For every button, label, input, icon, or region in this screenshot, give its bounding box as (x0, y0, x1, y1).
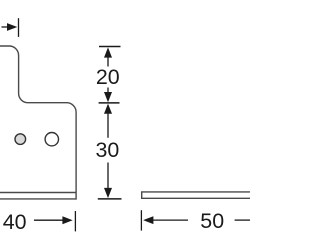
top-view bar (142, 192, 250, 198)
thickness pointer arrow (2, 26, 9, 28)
hole left (filled gray) (15, 134, 26, 145)
dim 30 up arrow (104, 104, 112, 114)
svg-text:40: 40 (3, 210, 27, 234)
svg-text:20: 20 (96, 65, 120, 89)
dim 30 bottom tick (98, 198, 122, 200)
svg-text:30: 30 (96, 138, 120, 162)
hole right (open) (45, 133, 58, 146)
flange fold line (0, 192, 76, 194)
dim 50 tick (140, 210, 142, 230)
dim 40 tick (74, 211, 76, 231)
bracket side-view outline (stepped plate) (0, 46, 76, 200)
dim 40 arrow (34, 219, 64, 221)
flange bottom edge (0, 198, 76, 200)
thickness pointer extension tick (18, 18, 20, 37)
dim 20 top tick (99, 46, 121, 48)
dim 20 up arrow (104, 47, 112, 57)
dim 30 down arrow (107, 163, 109, 190)
dim 20 down arrow (107, 88, 109, 94)
dim 50 right shaft (235, 219, 250, 221)
dim middle tick (99, 102, 120, 104)
svg-text:50: 50 (200, 209, 224, 233)
dim 50 arrow (143, 216, 153, 224)
